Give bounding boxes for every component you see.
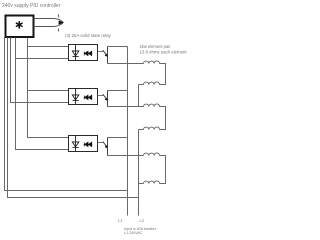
svg-text:(3) 25A solid state relay: (3) 25A solid state relay [65, 33, 112, 38]
SSR K2 input LED [72, 89, 79, 105]
heating element E4 [144, 127, 160, 130]
svg-text:240v supply PID controller: 240v supply PID controller [2, 3, 61, 9]
wire pair3 left junction / L2 terminal drop [138, 156, 140, 216]
SSR K1 output transistor Q1 [107, 47, 109, 64]
SSR K2 output triac [84, 95, 92, 99]
wire Q2 emitter to element E3 [108, 106, 144, 108]
SSR K3 input LED [72, 136, 79, 152]
wire E2 left lead [139, 84, 144, 86]
svg-text:L1: L1 [118, 218, 123, 223]
probe tick top [57, 14, 59, 17]
svg-text:13.8 ohms each element: 13.8 ohms each element [140, 49, 188, 54]
probe tick bottom [57, 28, 59, 31]
wire Q3 emitter to element E5 [108, 155, 144, 157]
wire E4 left lead [139, 129, 144, 131]
wire pair1 left junction [138, 85, 140, 107]
heating element E3 [144, 104, 160, 107]
controller asterisk symbol [16, 22, 22, 28]
SSR K1 output triac [84, 51, 92, 55]
heating element E1 [144, 61, 160, 64]
SSR K1 gate wire [98, 51, 104, 53]
wire pair1 right junction [160, 64, 166, 85]
SSR K3 gate wire [98, 142, 104, 144]
heating element E5 [144, 153, 160, 156]
SSR K2 optocoupler box [69, 89, 98, 105]
wire pair2 right junction [160, 107, 166, 130]
wire p4 branch to SSR1 lower input [16, 58, 69, 60]
svg-text:L2: L2 [140, 218, 145, 223]
wire p4 (controller pin4 to SSR1/SSR3 input-) [16, 38, 69, 150]
wire Q1 emitter to element E1 [108, 63, 144, 65]
L1 bus vertical [127, 47, 129, 216]
SSR K1 optocoupler box [69, 45, 98, 61]
thermocouple probe leads [34, 19, 64, 27]
heating element E6 [144, 181, 160, 184]
SSR K3 optocoupler box [69, 136, 98, 152]
PID controller U1 [6, 16, 34, 38]
wire Q3 collector to L1 bus [108, 137, 128, 139]
wire p5 branch to SSR1 upper input [28, 46, 69, 48]
wire pair2 left junction down to node3 [138, 130, 140, 156]
wire Q2 collector to L1 bus [108, 90, 128, 92]
SSR K3 output transistor Q3 [107, 138, 109, 156]
SSR K2 gate wire [98, 95, 104, 97]
SSR K1 input LED [72, 45, 79, 61]
wire p5 (controller pin5 to SSR+ inputs) [28, 38, 69, 138]
thermocouple probe tip arrow [59, 21, 64, 25]
heating element E2 [144, 82, 160, 85]
wire p3 (controller pin3 to SSR2 input-) [11, 38, 69, 103]
wire Q1 collector to L1 bus [108, 46, 128, 48]
svg-text:L1-240VAC: L1-240VAC [124, 231, 143, 235]
SSR K2 output transistor Q2 [107, 91, 109, 107]
wire p5 branch to SSR2 upper input [28, 90, 69, 92]
wire pair3 right junction [160, 156, 166, 184]
wire p2 (controller pin2 to L2 net) [8, 38, 139, 198]
wire p1 (controller pin1 to L1 net) [5, 38, 128, 191]
SSR K3 output triac [84, 142, 92, 146]
wire E6 left lead [139, 183, 144, 185]
